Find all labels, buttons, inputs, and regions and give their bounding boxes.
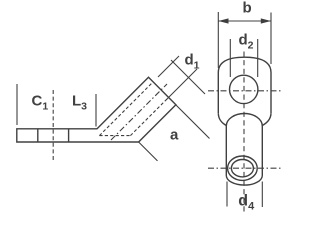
front view: barrel bottom cap bbox=[226, 176, 262, 186]
hole centerline (dashed vertical) bbox=[52, 90, 54, 162]
front view: palm outline with top arc and fillets to barrel bbox=[218, 57, 271, 113]
vertical centerline (dash-dot) bbox=[243, 52, 245, 214]
d2 extension line right bbox=[257, 39, 259, 77]
b dimension arrowheads bbox=[218, 18, 271, 23]
d2 extension line left bbox=[229, 39, 231, 77]
a extension line (from barrel end face) bbox=[176, 105, 210, 139]
b extension line right bbox=[270, 13, 272, 65]
d4 extension line right bbox=[261, 182, 263, 208]
b dimension line with arrows bbox=[218, 20, 271, 22]
front view: barrel top arc seen in palm bbox=[226, 114, 262, 126]
hole edge (side view, left line) bbox=[37, 129, 39, 142]
front view: barrel right side bbox=[261, 126, 263, 176]
svg-text:a: a bbox=[170, 127, 179, 144]
barrel axis centerline (dash-dot) bbox=[111, 84, 167, 140]
hole horizontal centerline (dash-dot) bbox=[208, 90, 282, 92]
front view: bore opening inner ellipse d4 bbox=[231, 160, 253, 177]
svg-text:L3: L3 bbox=[72, 93, 87, 113]
d1 dimension line bbox=[171, 60, 205, 94]
svg-text:d2: d2 bbox=[239, 32, 254, 52]
svg-text:b: b bbox=[243, 0, 252, 17]
bore hidden line (bottom, dashed) bbox=[99, 135, 130, 137]
d4 extension line left bbox=[226, 182, 228, 207]
a extension line (from palm corner) bbox=[139, 142, 158, 161]
front view: barrel left side bbox=[225, 126, 227, 176]
svg-text:d1: d1 bbox=[185, 52, 200, 72]
svg-text:d4: d4 bbox=[238, 193, 255, 213]
front view: left fillet bbox=[218, 113, 226, 125]
side view: palm and 45-degree barrel outline bbox=[17, 77, 176, 142]
front view: bore opening outer ellipse bbox=[228, 156, 258, 180]
bore hidden line (upper wall, dashed) bbox=[99, 82, 153, 136]
C1 extension line bbox=[16, 84, 18, 125]
L3 extension line bbox=[95, 94, 97, 127]
barrel horizontal centerline (dash-dot) bbox=[208, 167, 282, 169]
front view: palm hole circle d2 bbox=[230, 75, 258, 103]
hole edge (side view, right line) bbox=[68, 129, 70, 142]
svg-text:C1: C1 bbox=[32, 93, 49, 113]
d1 extension line (upper) bbox=[158, 56, 179, 77]
d1 extension line (lower) bbox=[166, 69, 197, 100]
bore hidden line (lower wall, dashed) bbox=[130, 98, 168, 136]
b extension line left bbox=[217, 12, 219, 68]
front view: right fillet bbox=[262, 113, 271, 125]
